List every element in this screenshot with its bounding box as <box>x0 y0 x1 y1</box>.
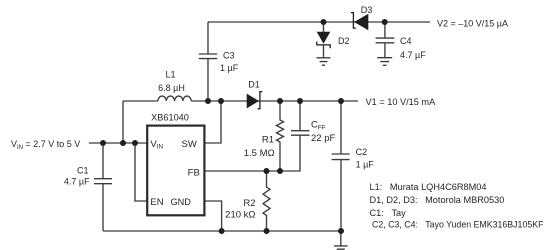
node Vin input junction <box>100 140 106 146</box>
svg-text:VIN = 2.7 V to 5 V: VIN = 2.7 V to 5 V <box>11 139 80 151</box>
node R1 top junction <box>277 98 283 104</box>
ground below C4 <box>377 58 392 66</box>
node Vin rail junction <box>120 140 126 146</box>
wire C3 branch vertical <box>207 22 209 101</box>
svg-text:C2, C3, C4: Tayo Yuden EMK31: C2, C3, C4: Tayo Yuden EMK316BJ105KF <box>372 220 544 230</box>
svg-text:L1: Murata LQH4C6R8M04: L1: Murata LQH4C6R8M04 <box>370 182 487 192</box>
wire SW branch <box>204 101 222 143</box>
wire left vertical to Vin <box>122 101 124 143</box>
svg-text:6.8 µH: 6.8 µH <box>158 83 185 93</box>
node CFF top junction <box>297 98 303 104</box>
svg-text:V2 = –10 V/15 µA: V2 = –10 V/15 µA <box>437 19 508 29</box>
svg-text:C4: C4 <box>400 36 412 46</box>
node C4 top junction <box>382 19 388 25</box>
wire GND branch <box>204 201 222 231</box>
wire D2 cathode to ground <box>323 45 325 58</box>
wire Vin input <box>89 142 147 144</box>
ground below bottom rail <box>334 231 348 249</box>
svg-text:D1, D2, D3: Motorola MBR0530: D1, D2, D3: Motorola MBR0530 <box>370 195 505 205</box>
capacitor C3 <box>199 54 217 59</box>
resistor R1 <box>277 101 284 171</box>
capacitor C2 <box>332 101 350 231</box>
ground below D2 <box>317 58 331 65</box>
op IC U1 XB61040 box <box>147 126 204 216</box>
svg-text:D1: D1 <box>248 79 260 89</box>
wire EN branch <box>135 143 147 201</box>
svg-text:1.5 MΩ: 1.5 MΩ <box>244 148 275 159</box>
wire top rail V2 net <box>208 21 430 23</box>
node C3 junction <box>205 98 211 104</box>
capacitor C1 <box>94 179 112 184</box>
inductor L1 <box>158 96 191 101</box>
svg-text:C2: C2 <box>356 147 368 157</box>
diode D2 <box>317 32 331 48</box>
svg-text:1 µF: 1 µF <box>356 160 375 170</box>
svg-text:D3: D3 <box>361 5 373 15</box>
svg-text:C1: C1 <box>77 166 89 176</box>
node EN junction <box>132 140 138 146</box>
svg-text:L1: L1 <box>165 70 175 80</box>
svg-text:22 pF: 22 pF <box>311 133 335 144</box>
wire FB branch <box>204 135 301 171</box>
capacitor CFF <box>291 131 310 136</box>
svg-text:1 µF: 1 µF <box>220 63 239 73</box>
svg-text:GND: GND <box>170 197 191 207</box>
node SW junction <box>218 98 224 104</box>
svg-text:R2: R2 <box>243 198 255 209</box>
svg-text:CFF: CFF <box>311 120 326 132</box>
svg-text:R1: R1 <box>262 135 274 146</box>
svg-text:V1 = 10 V/15 mA: V1 = 10 V/15 mA <box>366 97 437 107</box>
wire bottom rail <box>103 230 341 232</box>
diode D1 <box>247 92 263 109</box>
svg-text:4.7 µF: 4.7 µF <box>400 50 426 60</box>
wire C4 branch <box>384 22 386 58</box>
svg-text:C1: Tay: C1: Tay <box>370 208 407 218</box>
svg-text:FB: FB <box>188 168 200 179</box>
svg-text:XB61040: XB61040 <box>151 112 189 122</box>
svg-text:D2: D2 <box>338 36 350 46</box>
resistor R2 <box>263 171 270 231</box>
capacitor C4 <box>376 38 395 43</box>
diode D3 <box>351 13 368 31</box>
wire C1 branch <box>102 143 104 231</box>
node C2 top junction <box>338 98 344 104</box>
svg-text:210 kΩ: 210 kΩ <box>225 209 255 220</box>
wire mid rail V1 net <box>123 100 358 102</box>
node R2 top junction <box>264 168 270 174</box>
wire CFF top vertical <box>299 101 301 131</box>
svg-text:EN: EN <box>150 197 163 208</box>
svg-text:SW: SW <box>181 139 196 150</box>
svg-text:4.7 µF: 4.7 µF <box>64 177 90 187</box>
node GND rail junction <box>219 228 225 234</box>
node C2 bottom junction <box>338 228 344 234</box>
node R2 bottom junction <box>264 228 270 234</box>
wire D2 anode stub <box>323 22 325 32</box>
svg-text:C3: C3 <box>223 50 235 60</box>
node D2 anode junction <box>321 19 327 25</box>
node R1 bottom junction <box>277 168 283 174</box>
